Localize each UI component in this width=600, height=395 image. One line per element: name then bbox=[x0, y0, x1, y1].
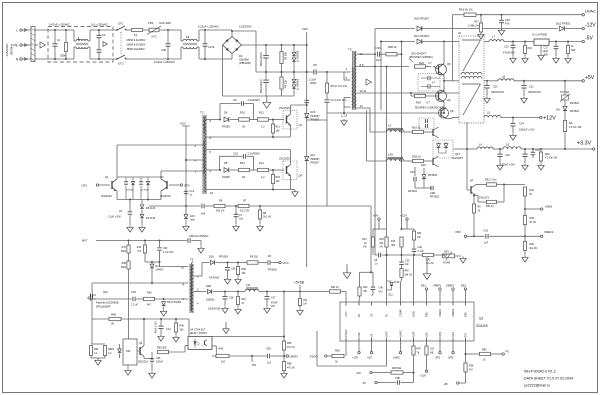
wire bbox=[473, 196, 475, 205]
svg-text:U1 LM7905: U1 LM7905 bbox=[532, 33, 547, 37]
wire bbox=[91, 343, 105, 345]
terminal VCC bbox=[279, 261, 281, 263]
wire bus C bbox=[386, 67, 388, 230]
svg-text:2x 1N5408: 2x 1N5408 bbox=[298, 50, 300, 62]
junction bbox=[283, 355, 285, 357]
capacitor C38 bbox=[266, 354, 268, 359]
junction bbox=[413, 372, 415, 374]
wire bbox=[451, 118, 453, 119]
wire 5vsb bbox=[194, 291, 207, 293]
svg-text:9k 2%: 9k 2% bbox=[530, 222, 536, 224]
optocoupler U4 bbox=[188, 337, 212, 350]
svg-text:C23: C23 bbox=[505, 18, 510, 22]
ground C28 bbox=[224, 307, 226, 309]
svg-text:D8 4148: D8 4148 bbox=[146, 207, 156, 210]
wire bbox=[401, 382, 414, 384]
svg-text:Fairchild 01C2N60B: Fairchild 01C2N60B bbox=[96, 302, 119, 305]
svg-text:R44: R44 bbox=[362, 239, 367, 241]
wire bbox=[299, 306, 301, 309]
svg-text:PR1503: PR1503 bbox=[430, 196, 440, 199]
capacitor C34 bbox=[511, 123, 516, 125]
wire startup divider drop bbox=[128, 269, 130, 339]
wire D16 anode bbox=[375, 28, 415, 30]
wire pin6 bbox=[206, 119, 220, 121]
junction bbox=[293, 71, 295, 73]
wire bbox=[151, 262, 153, 264]
resistor R22 bbox=[566, 46, 569, 54]
diode D9c bbox=[140, 214, 144, 218]
wire bbox=[476, 184, 486, 186]
svg-text:R52A: R52A bbox=[108, 348, 114, 351]
svg-text:PSON: PSON bbox=[310, 355, 317, 359]
wire bbox=[283, 371, 285, 372]
svg-text:FR160: FR160 bbox=[222, 125, 230, 129]
svg-text:R46: R46 bbox=[391, 241, 396, 243]
core L3A bbox=[388, 156, 404, 158]
wire -5V rail bbox=[504, 41, 582, 43]
wire bbox=[439, 152, 447, 154]
svg-text:V5: V5 bbox=[370, 333, 374, 337]
wire bbox=[132, 186, 134, 200]
svg-text:3300uF/10V: 3300uF/10V bbox=[491, 91, 504, 94]
wire bbox=[194, 275, 202, 277]
svg-text:1k0: 1k0 bbox=[276, 180, 281, 183]
junction bbox=[167, 58, 169, 60]
wire bbox=[230, 119, 238, 121]
arrow bbox=[40, 42, 45, 48]
svg-text:R43: R43 bbox=[363, 286, 368, 289]
wire bbox=[65, 52, 67, 59]
resistor R28b bbox=[523, 216, 526, 225]
wire bbox=[140, 177, 142, 182]
wire bbox=[237, 263, 239, 267]
resistor R24 bbox=[415, 94, 426, 97]
svg-text:4k7: 4k7 bbox=[469, 368, 474, 371]
svg-text:100uF: 100uF bbox=[156, 361, 163, 364]
diode D6 bbox=[224, 117, 229, 122]
wire bbox=[423, 168, 425, 175]
ground R49 bbox=[175, 336, 177, 338]
svg-text:ST-2: ST-2 bbox=[118, 62, 124, 66]
resistor R11 bbox=[271, 124, 274, 133]
potentiometer VR1 bbox=[443, 254, 455, 258]
svg-text:R5 47 Om 1W: R5 47 Om 1W bbox=[331, 84, 348, 88]
wire ref riser bbox=[283, 292, 285, 337]
wire bbox=[141, 210, 143, 215]
junction bbox=[272, 136, 274, 138]
wire bbox=[140, 186, 142, 200]
wire bbox=[512, 42, 514, 46]
terminal PG bbox=[502, 353, 504, 355]
wire V12 bbox=[426, 341, 428, 346]
wire bbox=[253, 104, 255, 120]
ground comp bbox=[426, 272, 428, 274]
wire bbox=[293, 62, 295, 72]
wire AC select bbox=[255, 31, 257, 72]
capacitor C3 bbox=[139, 181, 143, 183]
svg-text:47n: 47n bbox=[379, 290, 384, 293]
resistor R66 bbox=[480, 352, 491, 355]
svg-text:C14: C14 bbox=[166, 328, 171, 331]
wire bbox=[235, 206, 237, 214]
svg-text:Q6: Q6 bbox=[447, 98, 451, 102]
wire bbox=[237, 305, 239, 308]
wire NVP down bbox=[413, 355, 415, 383]
wire L out bbox=[90, 29, 117, 31]
wire bbox=[54, 30, 56, 44]
choke L1 bbox=[183, 43, 197, 45]
wire bbox=[501, 15, 503, 20]
svg-text:D2A: D2A bbox=[209, 256, 214, 259]
svg-text:R36: R36 bbox=[147, 292, 152, 295]
terminal UREF1 bbox=[286, 355, 288, 357]
diode D16b HER307 bbox=[305, 113, 309, 117]
diode Dm2 bbox=[444, 144, 448, 148]
wire Q10 drain bbox=[91, 290, 94, 295]
wire bbox=[230, 169, 238, 171]
wire bbox=[372, 290, 374, 294]
svg-text:OP1: OP1 bbox=[451, 331, 455, 337]
winding T2 sec top bbox=[203, 117, 205, 133]
wire bbox=[501, 23, 503, 28]
wire bbox=[157, 351, 159, 353]
svg-text:-12V: -12V bbox=[585, 23, 596, 29]
wire bbox=[293, 89, 295, 96]
junction bbox=[283, 336, 285, 338]
wire bbox=[184, 346, 186, 353]
resistor R46 bbox=[216, 354, 229, 357]
wire bbox=[213, 291, 246, 293]
wire HV bus vertical bbox=[306, 45, 308, 267]
wire bbox=[219, 104, 221, 120]
capacitor C4a bbox=[97, 34, 102, 36]
svg-text:R11: R11 bbox=[276, 126, 281, 129]
wire pin5 bbox=[206, 149, 290, 151]
terminal OP1 bbox=[96, 184, 98, 186]
svg-text:R28: R28 bbox=[530, 217, 535, 220]
svg-text:D16: D16 bbox=[311, 111, 316, 114]
svg-text:FBO: FBO bbox=[456, 231, 461, 234]
winding L6b bbox=[462, 83, 481, 85]
wire bbox=[499, 149, 501, 154]
wire bbox=[259, 219, 261, 224]
junction bbox=[512, 117, 514, 119]
wire bbox=[144, 358, 152, 360]
resistor R64b bbox=[236, 297, 239, 305]
wire OPP bbox=[386, 341, 388, 366]
opto LED bbox=[194, 342, 197, 345]
wire D17 anode bbox=[381, 41, 415, 43]
junction bbox=[224, 291, 226, 293]
wire pin13 bbox=[357, 53, 376, 55]
resistor R16 bbox=[464, 13, 476, 16]
svg-text:Q5: Q5 bbox=[447, 62, 451, 66]
wire RT bbox=[358, 296, 361, 302]
junction bbox=[235, 205, 237, 207]
wire bbox=[204, 47, 206, 60]
svg-text:-5V: -5V bbox=[585, 36, 593, 42]
wire MVT bbox=[96, 240, 187, 242]
capacitor Ck bbox=[325, 99, 330, 101]
ground R22 bbox=[567, 57, 569, 59]
wire bbox=[198, 30, 200, 41]
svg-text:R22: R22 bbox=[571, 49, 576, 52]
svg-text:50V: 50V bbox=[544, 54, 549, 57]
svg-text:FR160: FR160 bbox=[222, 175, 230, 179]
arrow bbox=[366, 79, 371, 85]
wire bbox=[473, 213, 475, 236]
wire bbox=[180, 30, 182, 41]
wire bbox=[391, 287, 393, 291]
wire bbox=[524, 149, 526, 154]
svg-text:3k3: 3k3 bbox=[180, 329, 185, 332]
terminal OP2 bbox=[180, 184, 182, 186]
svg-text:R23: R23 bbox=[419, 61, 424, 65]
wire bbox=[424, 160, 434, 162]
inductor L5 bbox=[484, 115, 501, 117]
svg-text:OPP: OPP bbox=[385, 331, 389, 337]
svg-text:C10: C10 bbox=[536, 149, 541, 152]
wire bbox=[129, 215, 131, 225]
inductor L3 bbox=[387, 130, 405, 132]
junction bbox=[386, 254, 388, 256]
transistor Q2 2N2222A bbox=[166, 181, 168, 189]
switch ST-2 bbox=[117, 55, 125, 59]
svg-text:Q11: Q11 bbox=[455, 152, 460, 156]
capacitor C14b bbox=[159, 325, 164, 327]
wire opto out bbox=[212, 336, 284, 338]
wire bbox=[426, 95, 439, 97]
ground opto bbox=[225, 327, 227, 329]
svg-text:2x 1N5408: 2x 1N5408 bbox=[298, 78, 300, 90]
wire bbox=[169, 351, 186, 353]
wire bbox=[175, 332, 177, 335]
junction bbox=[175, 318, 177, 320]
wire bbox=[512, 127, 514, 133]
svg-text:Q10: Q10 bbox=[103, 291, 108, 294]
wire bbox=[401, 247, 403, 262]
terminal +3.3V bbox=[593, 148, 595, 150]
svg-text:PR1503: PR1503 bbox=[428, 174, 438, 177]
pin IN bbox=[386, 302, 388, 306]
resistor R28 bbox=[386, 53, 397, 56]
wire bbox=[466, 183, 468, 190]
wire bbox=[445, 142, 447, 144]
wire bbox=[116, 191, 118, 200]
capacitor C45 bbox=[150, 358, 154, 360]
svg-text:1uF: 1uF bbox=[303, 304, 308, 306]
svg-text:C16: C16 bbox=[505, 154, 510, 157]
svg-text:L10: L10 bbox=[246, 284, 251, 287]
wire U1 gnd bbox=[540, 46, 542, 54]
ground C6c bbox=[129, 226, 131, 228]
svg-text:1000uF/16V: 1000uF/16V bbox=[208, 309, 221, 311]
wire bbox=[212, 345, 216, 347]
wire bbox=[283, 337, 285, 342]
wire VREF2 bbox=[452, 290, 454, 302]
svg-text:2SC2625: 2SC2625 bbox=[279, 106, 290, 110]
wire -12V feed bbox=[422, 28, 558, 30]
ground D9c bbox=[141, 226, 143, 228]
wire pin10-11 bbox=[357, 92, 460, 94]
resistor R19 bbox=[413, 130, 424, 133]
svg-text:T3: T3 bbox=[348, 48, 352, 52]
wire bbox=[88, 46, 90, 48]
wire bbox=[373, 228, 387, 230]
svg-text:PR1507: PR1507 bbox=[311, 162, 320, 165]
wire bbox=[567, 42, 569, 46]
wire bbox=[265, 59, 267, 72]
capacitor C39 bbox=[485, 234, 487, 239]
svg-text:R47: R47 bbox=[417, 348, 422, 351]
ground C45 bbox=[151, 372, 153, 374]
junction bbox=[306, 71, 308, 73]
junction bbox=[159, 261, 161, 263]
wire bbox=[167, 30, 169, 44]
wire bbox=[125, 186, 127, 200]
terminal block bbox=[31, 27, 35, 62]
svg-text:R68: R68 bbox=[335, 350, 340, 353]
junction bbox=[410, 92, 412, 94]
wire bbox=[403, 372, 414, 374]
wire bbox=[446, 118, 452, 120]
svg-text:R4B: R4B bbox=[111, 314, 116, 317]
ground R34 bbox=[299, 309, 301, 311]
svg-text:SP: SP bbox=[470, 180, 474, 183]
diode D4 bbox=[131, 182, 134, 185]
wire bbox=[413, 229, 415, 231]
diode D3b bbox=[292, 85, 296, 89]
wire bbox=[143, 357, 145, 359]
junction bbox=[147, 199, 149, 201]
ground aux bbox=[346, 271, 348, 273]
wire bbox=[141, 200, 143, 205]
junction bbox=[54, 58, 56, 60]
transistor Q6b 2N2222A bbox=[139, 347, 141, 355]
wire bbox=[512, 48, 514, 56]
wire pin10 bbox=[206, 189, 290, 191]
svg-text:C42: C42 bbox=[418, 246, 423, 249]
svg-text:NB: NB bbox=[430, 351, 434, 354]
wire pin5 bbox=[344, 79, 350, 81]
ground R8 bbox=[259, 225, 261, 227]
resistor R46c bbox=[143, 245, 146, 253]
junction bbox=[503, 184, 505, 186]
wire OP1 bbox=[452, 341, 454, 352]
svg-text:PR1503: PR1503 bbox=[570, 102, 580, 105]
junction bbox=[486, 80, 488, 82]
capacitor C36 bbox=[225, 267, 230, 269]
capacitor C2B bbox=[430, 186, 432, 191]
ground HV- chassis bbox=[266, 101, 268, 103]
svg-text:C1: C1 bbox=[57, 38, 61, 42]
pin VREF1 bbox=[439, 302, 441, 306]
capacitor C4b bbox=[97, 49, 102, 51]
wire N out bbox=[90, 58, 117, 60]
junction bbox=[443, 80, 445, 82]
wire bbox=[445, 148, 447, 153]
svg-text:R7: R7 bbox=[243, 199, 247, 203]
svg-text:1N4007: 1N4007 bbox=[156, 270, 165, 272]
wire bbox=[265, 72, 267, 80]
svg-text:ST-1: ST-1 bbox=[118, 22, 124, 26]
wire bbox=[119, 354, 121, 359]
callout line bbox=[409, 59, 413, 63]
wire bbox=[414, 181, 416, 188]
svg-text:06 R1B: 06 R1B bbox=[141, 190, 149, 192]
junction bbox=[281, 71, 283, 73]
capacitor C7 bbox=[234, 213, 239, 215]
svg-text:D22 FR1003: D22 FR1003 bbox=[167, 301, 182, 304]
svg-text:D12: D12 bbox=[389, 295, 394, 297]
svg-text:1N5822: 1N5822 bbox=[206, 299, 215, 302]
junction bbox=[237, 291, 239, 293]
arrow bbox=[103, 42, 107, 47]
svg-text:Q1: Q1 bbox=[105, 175, 109, 179]
svg-text:R13: R13 bbox=[240, 161, 245, 165]
wire bbox=[555, 42, 557, 47]
junction bbox=[65, 58, 67, 60]
svg-text:R38: R38 bbox=[469, 365, 474, 368]
wire bbox=[290, 125, 292, 137]
wire bbox=[401, 265, 403, 268]
wire bbox=[343, 107, 345, 113]
svg-text:TCK DA: TCK DA bbox=[560, 91, 570, 94]
wire bbox=[414, 167, 416, 176]
junction bbox=[266, 291, 268, 293]
junction bbox=[524, 148, 526, 150]
wire bbox=[290, 176, 292, 190]
wire bbox=[404, 131, 412, 133]
junction bbox=[299, 291, 301, 293]
terminal N bbox=[20, 58, 22, 60]
svg-text:PR1503: PR1503 bbox=[570, 110, 580, 113]
svg-text:D19: D19 bbox=[421, 164, 426, 167]
pin V12 bbox=[426, 338, 428, 342]
wire bbox=[532, 149, 534, 152]
wire bbox=[281, 64, 283, 73]
wire bbox=[326, 102, 328, 113]
wire bbox=[143, 29, 150, 31]
capacitor C33 bbox=[376, 52, 378, 57]
svg-text:R66: R66 bbox=[482, 349, 487, 352]
transformer core bbox=[203, 115, 206, 194]
wire bbox=[524, 42, 526, 46]
resistor R6 bbox=[214, 204, 225, 207]
svg-text:R9 510: R9 510 bbox=[250, 256, 259, 259]
terminal V20 bbox=[358, 352, 360, 354]
diode D10 bbox=[560, 26, 565, 31]
ground R55 bbox=[237, 278, 239, 280]
svg-text:10L/60PT: 10L/60PT bbox=[452, 156, 464, 160]
capacitor Cs1 bbox=[427, 76, 429, 81]
pin FB1 bbox=[426, 302, 428, 306]
wire bbox=[476, 195, 478, 197]
core L3 bbox=[388, 127, 404, 129]
svg-text:PR1507: PR1507 bbox=[311, 119, 320, 122]
wire pin10 bbox=[160, 266, 189, 268]
wire aux fb bbox=[92, 318, 189, 320]
wire bbox=[144, 253, 146, 262]
resistor R7 bbox=[238, 204, 249, 207]
resistor R6b bbox=[472, 204, 475, 213]
svg-text:1k0: 1k0 bbox=[276, 130, 281, 133]
wire bbox=[119, 344, 121, 349]
wire bbox=[160, 171, 162, 179]
wire Q12 base bbox=[467, 189, 471, 191]
wire bbox=[220, 155, 243, 157]
junction bbox=[227, 262, 229, 264]
